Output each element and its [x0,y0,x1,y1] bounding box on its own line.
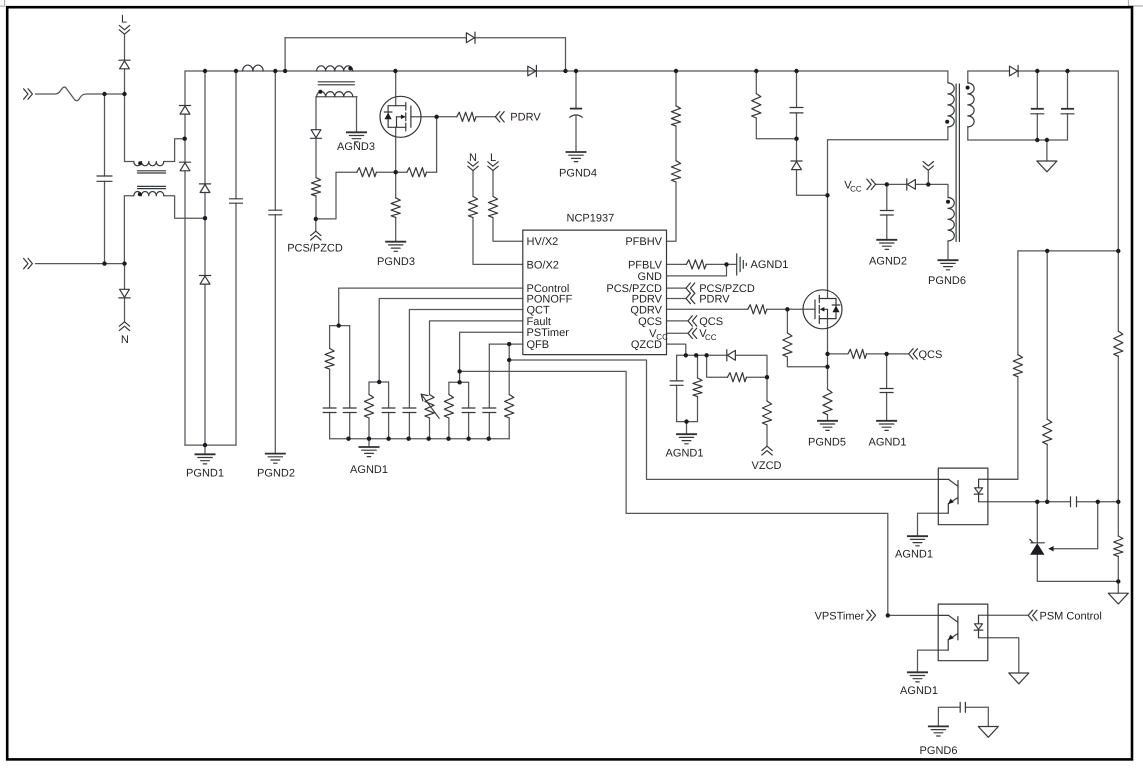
svg-text:PSM Control: PSM Control [1040,610,1102,622]
svg-text:AGND1: AGND1 [900,685,938,697]
svg-text:VPSTimer: VPSTimer [815,610,865,622]
svg-text:NCP1937: NCP1937 [567,212,615,224]
svg-text:PGND2: PGND2 [257,467,295,479]
svg-text:QCS: QCS [699,316,723,328]
svg-text:QDRV: QDRV [630,304,662,316]
svg-text:AGND3: AGND3 [337,141,375,153]
svg-text:PGND6: PGND6 [920,745,958,757]
svg-text:PGND6: PGND6 [928,275,966,287]
svg-text:AGND2: AGND2 [869,255,907,267]
svg-text:VZCD: VZCD [752,460,782,472]
svg-text:PDRV: PDRV [699,293,730,305]
svg-text:PFBHV: PFBHV [625,236,662,248]
svg-text:CC: CC [656,333,668,342]
svg-text:PGND4: PGND4 [559,167,597,179]
svg-text:QCS: QCS [638,316,662,328]
svg-text:CC: CC [705,333,717,342]
svg-text:PGND1: PGND1 [186,467,224,479]
svg-text:BO/X2: BO/X2 [527,259,559,271]
svg-text:PFBLV: PFBLV [628,259,663,271]
svg-text:AGND1: AGND1 [751,259,789,271]
svg-text:N: N [469,152,477,164]
svg-text:L: L [490,152,496,164]
svg-text:Fault: Fault [527,316,551,328]
svg-text:N: N [121,334,129,346]
svg-text:GND: GND [638,271,663,283]
svg-text:AGND1: AGND1 [869,436,907,448]
svg-text:PGND5: PGND5 [808,436,846,448]
svg-text:CC: CC [850,184,862,193]
svg-text:HV/X2: HV/X2 [527,236,559,248]
svg-text:PSTimer: PSTimer [527,327,570,339]
svg-text:AGND1: AGND1 [350,464,388,476]
svg-text:QFB: QFB [527,339,550,351]
svg-text:AGND1: AGND1 [666,447,704,459]
svg-text:PCS/PZCD: PCS/PZCD [287,242,343,254]
svg-text:QCS: QCS [919,349,943,361]
svg-text:QCT: QCT [527,304,551,316]
svg-text:PGND3: PGND3 [377,256,415,268]
svg-text:AGND1: AGND1 [895,548,933,560]
svg-text:L: L [121,13,127,25]
svg-text:PDRV: PDRV [510,112,541,124]
